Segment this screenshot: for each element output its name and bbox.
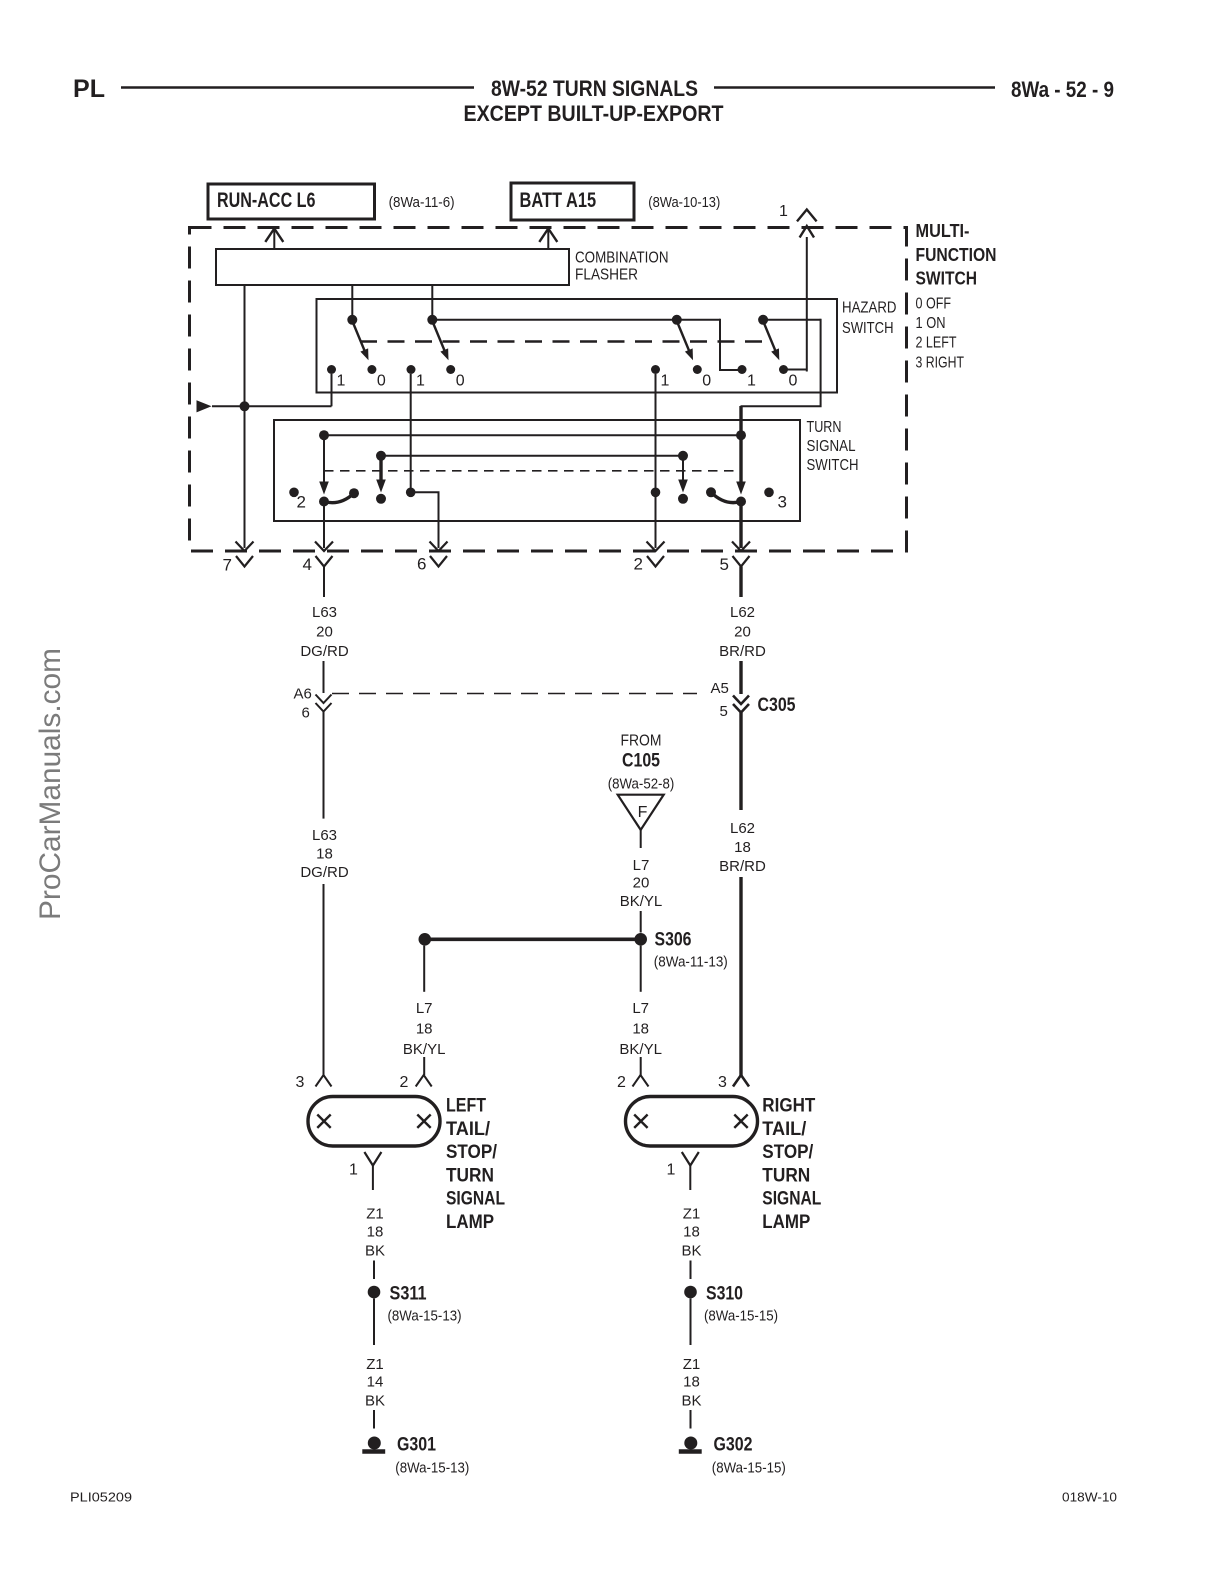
svg-text:L63: L63 [312, 827, 337, 844]
svg-text:20: 20 [734, 624, 751, 641]
svg-text:3: 3 [296, 1074, 305, 1091]
svg-text:2: 2 [617, 1074, 626, 1091]
svg-text:L62: L62 [730, 604, 755, 621]
svg-text:STOP/: STOP/ [446, 1142, 498, 1163]
svg-text:LAMP: LAMP [762, 1212, 810, 1233]
svg-text:(8Wa-15-13): (8Wa-15-13) [395, 1460, 469, 1477]
svg-text:1: 1 [337, 373, 346, 390]
svg-text:0: 0 [456, 373, 465, 390]
svg-text:1 ON: 1 ON [916, 315, 946, 332]
svg-text:TURN: TURN [446, 1165, 494, 1186]
svg-text:(8Wa-52-8): (8Wa-52-8) [608, 776, 675, 793]
svg-text:(8Wa-15-15): (8Wa-15-15) [712, 1460, 786, 1477]
svg-text:DG/RD: DG/RD [300, 643, 349, 660]
svg-text:TAIL/: TAIL/ [446, 1119, 491, 1140]
svg-text:COMBINATION: COMBINATION [575, 250, 669, 267]
svg-text:18: 18 [316, 846, 333, 863]
svg-text:6: 6 [302, 705, 310, 722]
svg-text:18: 18 [632, 1021, 649, 1038]
svg-text:A5: A5 [711, 680, 729, 697]
svg-text:PLI05209: PLI05209 [70, 1490, 132, 1505]
svg-text:2 LEFT: 2 LEFT [916, 335, 957, 352]
svg-text:(8Wa-11-13): (8Wa-11-13) [654, 954, 728, 971]
svg-text:(8Wa-15-13): (8Wa-15-13) [388, 1308, 462, 1325]
svg-text:SWITCH: SWITCH [916, 269, 978, 289]
svg-text:BK: BK [681, 1393, 701, 1410]
svg-text:EXCEPT BUILT-UP-EXPORT: EXCEPT BUILT-UP-EXPORT [464, 101, 724, 126]
svg-text:HAZARD: HAZARD [842, 300, 897, 317]
svg-text:G301: G301 [397, 1434, 436, 1456]
svg-text:Z1: Z1 [366, 1206, 384, 1223]
svg-text:L7: L7 [633, 857, 650, 874]
svg-text:18: 18 [416, 1021, 433, 1038]
svg-text:3: 3 [778, 493, 787, 512]
svg-text:2: 2 [400, 1074, 409, 1091]
svg-text:MULTI-: MULTI- [916, 221, 970, 241]
svg-text:0: 0 [702, 373, 711, 390]
svg-text:STOP/: STOP/ [762, 1142, 814, 1163]
svg-text:BR/RD: BR/RD [719, 858, 766, 875]
svg-text:S311: S311 [390, 1283, 427, 1305]
svg-text:PL: PL [73, 75, 105, 103]
svg-text:2: 2 [634, 555, 643, 574]
svg-text:A6: A6 [294, 686, 312, 703]
svg-text:1: 1 [747, 373, 756, 390]
svg-text:6: 6 [417, 555, 426, 574]
svg-text:1: 1 [667, 1162, 676, 1179]
svg-text:TURN: TURN [762, 1165, 810, 1186]
svg-text:FROM: FROM [621, 733, 662, 750]
svg-text:TAIL/: TAIL/ [762, 1119, 807, 1140]
svg-text:2: 2 [297, 493, 306, 512]
svg-text:SIGNAL: SIGNAL [807, 438, 856, 455]
svg-text:1: 1 [349, 1162, 358, 1179]
svg-text:BATT A15: BATT A15 [520, 188, 597, 212]
svg-text:SIGNAL: SIGNAL [762, 1189, 821, 1210]
svg-text:F: F [638, 804, 648, 821]
svg-text:RIGHT: RIGHT [762, 1096, 815, 1117]
svg-text:20: 20 [316, 624, 333, 641]
svg-text:Z1: Z1 [683, 1206, 701, 1223]
svg-text:BR/RD: BR/RD [719, 643, 766, 660]
svg-text:7: 7 [223, 556, 232, 575]
svg-text:TURN: TURN [807, 419, 842, 436]
svg-text:1: 1 [779, 203, 788, 220]
svg-text:G302: G302 [714, 1434, 753, 1456]
svg-text:8Wa - 52 - 9: 8Wa - 52 - 9 [1011, 77, 1114, 102]
svg-text:Z1: Z1 [683, 1356, 701, 1373]
svg-text:L7: L7 [632, 1000, 649, 1017]
svg-text:S306: S306 [655, 929, 692, 951]
svg-text:L63: L63 [312, 604, 337, 621]
svg-text:18: 18 [734, 839, 751, 856]
svg-text:1: 1 [416, 373, 425, 390]
svg-text:L62: L62 [730, 820, 755, 837]
svg-text:3: 3 [718, 1074, 727, 1091]
svg-text:0: 0 [377, 373, 386, 390]
svg-text:FUNCTION: FUNCTION [916, 245, 997, 265]
svg-text:BK: BK [681, 1243, 701, 1260]
svg-text:LAMP: LAMP [446, 1212, 494, 1233]
svg-text:DG/RD: DG/RD [300, 864, 349, 881]
svg-text:L7: L7 [416, 1000, 433, 1017]
svg-text:SIGNAL: SIGNAL [446, 1189, 505, 1210]
svg-text:C105: C105 [622, 751, 660, 772]
svg-text:5: 5 [720, 555, 729, 574]
svg-text:8W-52 TURN SIGNALS: 8W-52 TURN SIGNALS [491, 76, 698, 101]
svg-text:5: 5 [720, 703, 728, 720]
svg-text:18: 18 [683, 1224, 700, 1241]
svg-text:(8Wa-11-6): (8Wa-11-6) [389, 195, 455, 211]
svg-text:1: 1 [661, 373, 670, 390]
svg-text:20: 20 [633, 874, 650, 891]
svg-text:BK: BK [365, 1393, 385, 1410]
svg-text:18: 18 [367, 1224, 384, 1241]
svg-text:S310: S310 [706, 1283, 743, 1305]
svg-text:14: 14 [367, 1374, 384, 1391]
svg-text:BK/YL: BK/YL [619, 1041, 662, 1058]
svg-text:18: 18 [683, 1374, 700, 1391]
svg-text:ProCarManuals.com: ProCarManuals.com [34, 648, 67, 920]
svg-text:0: 0 [789, 373, 798, 390]
svg-text:(8Wa-10-13): (8Wa-10-13) [648, 195, 720, 211]
svg-text:LEFT: LEFT [446, 1096, 486, 1117]
svg-text:Z1: Z1 [366, 1356, 384, 1373]
svg-text:4: 4 [303, 555, 312, 574]
svg-text:SWITCH: SWITCH [807, 457, 859, 474]
svg-text:0 OFF: 0 OFF [916, 296, 952, 313]
svg-text:018W-10: 018W-10 [1062, 1490, 1117, 1505]
svg-text:BK: BK [365, 1243, 385, 1260]
svg-text:BK/YL: BK/YL [620, 893, 663, 910]
svg-text:BK/YL: BK/YL [403, 1041, 446, 1058]
svg-text:FLASHER: FLASHER [575, 267, 638, 284]
svg-text:RUN-ACC L6: RUN-ACC L6 [217, 188, 316, 212]
svg-text:3 RIGHT: 3 RIGHT [916, 355, 965, 372]
svg-text:SWITCH: SWITCH [842, 320, 894, 337]
svg-text:(8Wa-15-15): (8Wa-15-15) [704, 1308, 778, 1325]
svg-text:C305: C305 [758, 695, 796, 716]
